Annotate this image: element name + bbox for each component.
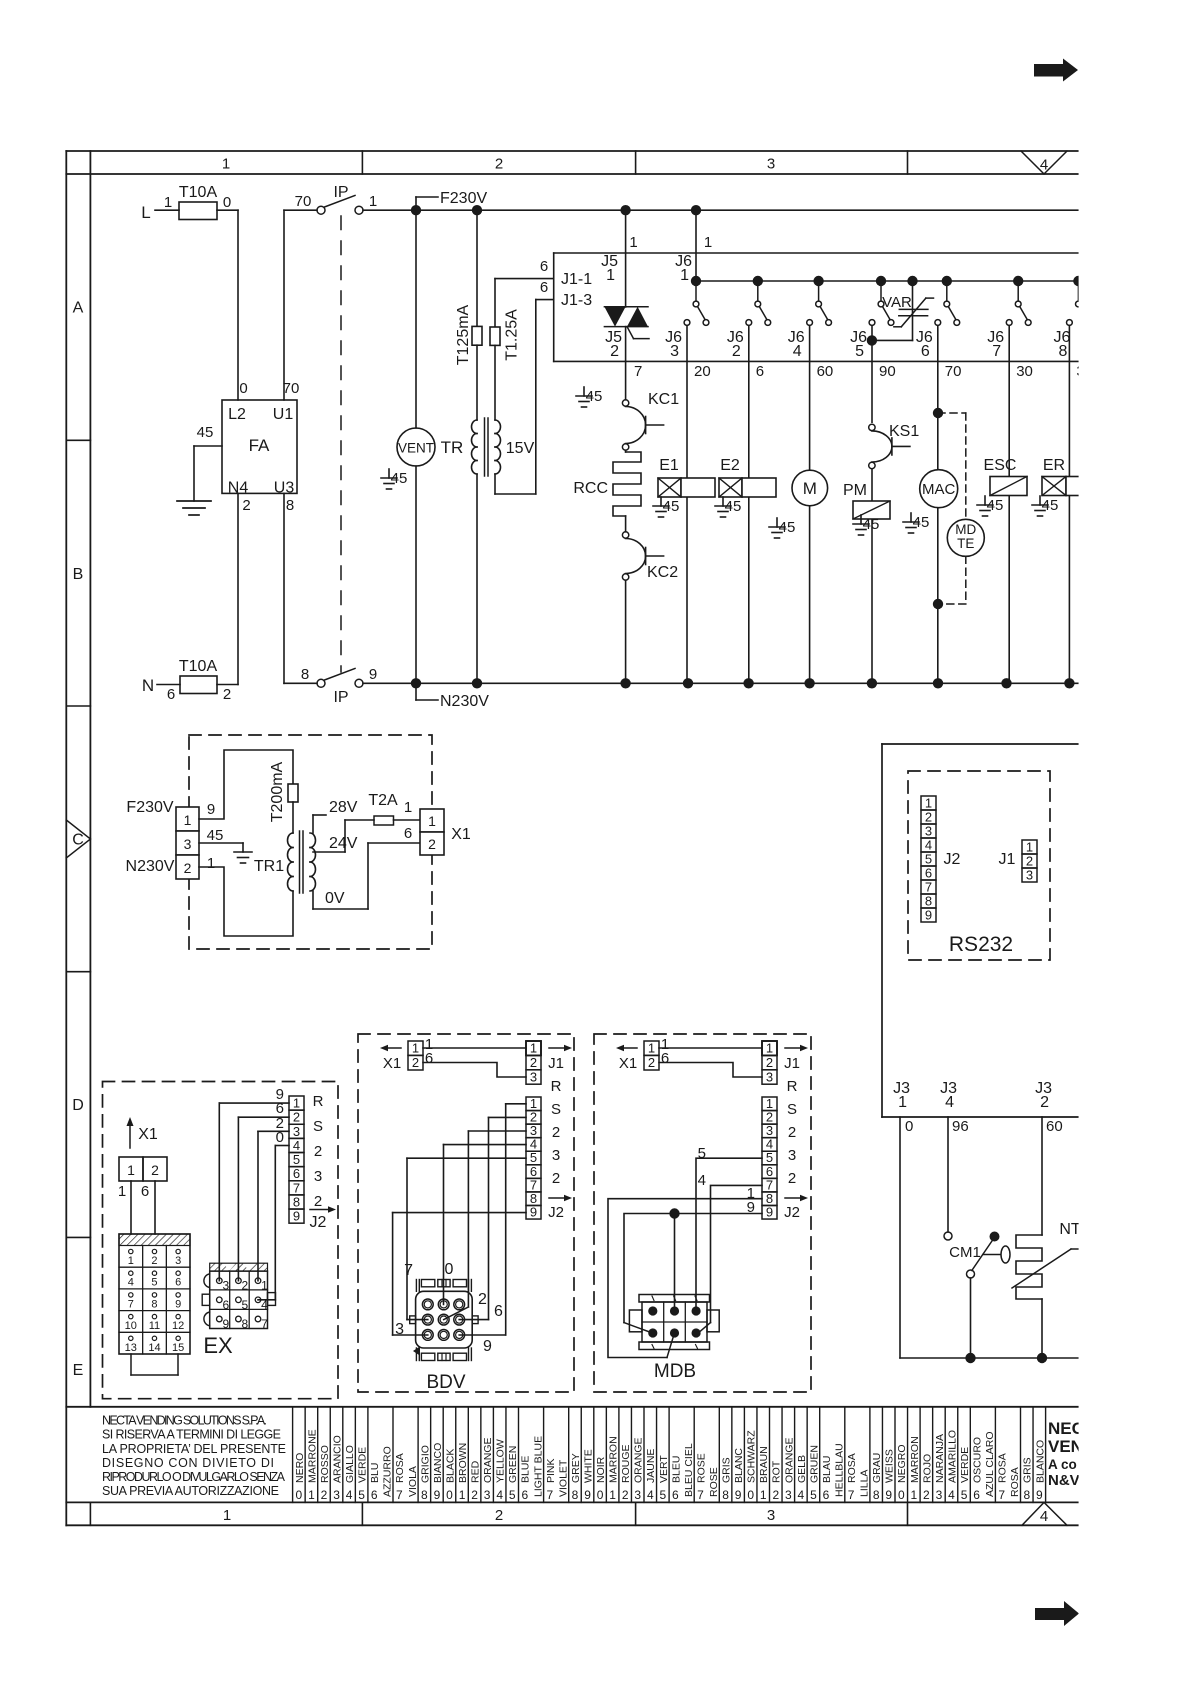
svg-text:NOIR: NOIR — [595, 1456, 607, 1483]
svg-text:3: 3 — [184, 836, 192, 852]
svg-text:45: 45 — [391, 470, 408, 487]
svg-text:BLACK: BLACK — [444, 1449, 456, 1483]
svg-text:OSCURO: OSCURO — [972, 1437, 984, 1483]
svg-text:U1: U1 — [273, 406, 294, 423]
svg-text:3: 3 — [552, 1147, 560, 1164]
svg-text:ROSSO: ROSSO — [319, 1445, 331, 1483]
svg-text:2: 2 — [788, 1170, 796, 1187]
svg-text:KS1: KS1 — [889, 423, 919, 440]
svg-text:5: 5 — [961, 1488, 968, 1502]
svg-text:F230V: F230V — [126, 799, 173, 816]
svg-text:4: 4 — [1040, 157, 1048, 174]
svg-text:1: 1 — [648, 1041, 655, 1056]
svg-text:45: 45 — [779, 519, 796, 536]
svg-text:S: S — [313, 1118, 323, 1135]
svg-text:EX: EX — [203, 1333, 233, 1358]
svg-text:4: 4 — [128, 1277, 134, 1289]
svg-text:9: 9 — [369, 666, 377, 683]
svg-text:A: A — [73, 300, 84, 317]
svg-text:NT: NT — [1059, 1221, 1081, 1238]
svg-text:1: 1 — [760, 1488, 767, 1502]
svg-text:45: 45 — [725, 498, 742, 515]
svg-text:VERDE: VERDE — [357, 1447, 369, 1483]
svg-text:1: 1 — [606, 267, 615, 284]
svg-text:GRUEN: GRUEN — [808, 1445, 820, 1483]
svg-text:90: 90 — [879, 363, 896, 380]
svg-text:9: 9 — [747, 1199, 755, 1216]
svg-text:1: 1 — [428, 813, 436, 829]
svg-text:1: 1 — [118, 1183, 126, 1200]
svg-text:ROSA: ROSA — [1009, 1467, 1021, 1497]
svg-text:5: 5 — [358, 1488, 365, 1502]
svg-text:1: 1 — [261, 1279, 268, 1293]
svg-text:15V: 15V — [506, 440, 535, 457]
svg-text:J2: J2 — [944, 851, 961, 868]
svg-text:LILLA: LILLA — [859, 1470, 871, 1497]
svg-text:70: 70 — [283, 380, 300, 397]
svg-text:6: 6 — [494, 1303, 503, 1320]
svg-text:0: 0 — [296, 1488, 303, 1502]
svg-text:4: 4 — [496, 1488, 503, 1502]
svg-text:1: 1 — [223, 1507, 231, 1524]
svg-text:T1.25A: T1.25A — [504, 309, 521, 361]
svg-text:2: 2 — [788, 1124, 796, 1141]
svg-text:9: 9 — [483, 1338, 492, 1355]
svg-text:GRIS: GRIS — [721, 1457, 733, 1483]
svg-text:ESC: ESC — [984, 457, 1017, 474]
svg-text:2: 2 — [732, 343, 741, 360]
svg-text:3: 3 — [766, 1069, 773, 1084]
svg-text:7: 7 — [293, 1180, 300, 1195]
svg-text:GRIGIO: GRIGIO — [419, 1445, 431, 1483]
svg-text:RED: RED — [470, 1460, 482, 1483]
svg-text:GRAU: GRAU — [871, 1453, 883, 1483]
svg-text:3: 3 — [767, 156, 775, 173]
svg-text:45: 45 — [207, 827, 224, 844]
svg-text:0: 0 — [898, 1488, 905, 1502]
svg-text:J2: J2 — [310, 1214, 327, 1231]
svg-text:8: 8 — [1023, 1488, 1030, 1502]
svg-text:2: 2 — [478, 1291, 487, 1308]
svg-text:2: 2 — [151, 1162, 159, 1178]
svg-text:J2: J2 — [548, 1204, 564, 1221]
svg-text:ROJO: ROJO — [921, 1454, 933, 1483]
svg-text:FA: FA — [249, 436, 270, 455]
svg-text:1: 1 — [530, 1041, 537, 1056]
svg-text:6: 6 — [756, 363, 764, 380]
svg-text:5: 5 — [151, 1277, 157, 1289]
svg-text:3: 3 — [222, 1279, 229, 1293]
svg-text:4: 4 — [698, 1172, 706, 1189]
svg-text:J1: J1 — [548, 1055, 564, 1072]
svg-text:E2: E2 — [720, 457, 740, 474]
svg-text:VIOLET: VIOLET — [557, 1459, 569, 1497]
svg-text:MD: MD — [955, 522, 976, 537]
svg-text:ROSA: ROSA — [846, 1453, 858, 1483]
svg-text:2: 2 — [552, 1170, 560, 1187]
svg-text:6: 6 — [175, 1277, 181, 1289]
svg-text:N: N — [142, 676, 154, 695]
svg-text:IP: IP — [333, 184, 348, 201]
svg-text:20: 20 — [694, 363, 711, 380]
svg-text:RIPRODURLO O DIVULGARLO SENZA: RIPRODURLO O DIVULGARLO SENZA — [102, 1470, 286, 1484]
svg-text:KC1: KC1 — [648, 391, 679, 408]
svg-text:ER: ER — [1043, 457, 1065, 474]
svg-text:7: 7 — [697, 1488, 704, 1502]
svg-text:VAR: VAR — [882, 294, 912, 311]
svg-text:NECTA VENDING SOLUTIONS S.P.A.: NECTA VENDING SOLUTIONS S.P.A. — [102, 1414, 267, 1428]
svg-text:3: 3 — [767, 1507, 775, 1524]
svg-text:BLANCO: BLANCO — [1034, 1440, 1046, 1483]
svg-text:L: L — [141, 203, 150, 222]
svg-text:LA PROPRIETA’ DEL PRESENTE: LA PROPRIETA’ DEL PRESENTE — [102, 1442, 286, 1456]
svg-text:6: 6 — [661, 1050, 669, 1067]
svg-text:X1: X1 — [383, 1055, 401, 1072]
svg-text:70: 70 — [945, 363, 962, 380]
svg-text:1: 1 — [925, 796, 932, 811]
svg-text:ARANCIO: ARANCIO — [331, 1435, 343, 1483]
svg-text:1: 1 — [127, 1162, 135, 1178]
svg-text:M: M — [803, 479, 817, 498]
svg-text:8: 8 — [151, 1298, 157, 1310]
svg-text:9: 9 — [222, 1317, 229, 1331]
svg-text:5: 5 — [925, 852, 932, 867]
svg-text:SI RISERVA A TERMINI DI LEGGE: SI RISERVA A TERMINI DI LEGGE — [102, 1428, 281, 1442]
svg-text:1: 1 — [898, 1094, 907, 1111]
svg-text:GIALLO: GIALLO — [344, 1445, 356, 1483]
svg-text:SCHWARZ: SCHWARZ — [746, 1430, 758, 1483]
svg-text:5: 5 — [698, 1145, 706, 1162]
svg-text:2: 2 — [1040, 1094, 1049, 1111]
svg-text:45: 45 — [863, 516, 880, 533]
svg-text:J1: J1 — [784, 1055, 800, 1072]
svg-text:0: 0 — [905, 1118, 913, 1135]
svg-text:S: S — [787, 1101, 797, 1118]
svg-text:2: 2 — [184, 860, 192, 876]
svg-text:4: 4 — [948, 1488, 955, 1502]
svg-text:1: 1 — [308, 1488, 315, 1502]
svg-text:YELLOW: YELLOW — [495, 1439, 507, 1483]
svg-text:BIANCO: BIANCO — [432, 1443, 444, 1483]
svg-text:3: 3 — [936, 1488, 943, 1502]
svg-text:RCC: RCC — [573, 480, 608, 497]
svg-text:MARRON: MARRON — [608, 1436, 620, 1483]
svg-text:2: 2 — [530, 1055, 537, 1070]
svg-text:3: 3 — [788, 1147, 796, 1164]
svg-text:0: 0 — [239, 380, 247, 397]
svg-text:9: 9 — [766, 1204, 773, 1219]
svg-text:30: 30 — [1016, 363, 1033, 380]
svg-text:6: 6 — [823, 1488, 830, 1502]
svg-text:4: 4 — [1040, 1508, 1048, 1525]
svg-text:0V: 0V — [325, 890, 345, 907]
svg-text:RS232: RS232 — [949, 933, 1013, 956]
svg-text:KC2: KC2 — [647, 564, 678, 581]
svg-text:1: 1 — [222, 156, 230, 173]
svg-text:MAC: MAC — [922, 481, 956, 498]
svg-text:9: 9 — [1036, 1488, 1043, 1502]
svg-text:1: 1 — [184, 812, 192, 828]
svg-text:2: 2 — [622, 1488, 629, 1502]
svg-text:X1: X1 — [451, 826, 471, 843]
svg-text:IP: IP — [333, 689, 348, 706]
svg-text:5: 5 — [660, 1488, 667, 1502]
svg-text:S: S — [551, 1101, 561, 1118]
svg-text:0: 0 — [276, 1129, 284, 1146]
svg-text:2: 2 — [648, 1055, 655, 1070]
svg-text:7: 7 — [547, 1488, 554, 1502]
svg-text:5: 5 — [855, 343, 864, 360]
svg-text:1: 1 — [404, 799, 412, 816]
svg-text:T125mA: T125mA — [455, 304, 472, 365]
svg-text:TR: TR — [441, 438, 464, 457]
svg-text:T10A: T10A — [179, 184, 218, 201]
svg-text:1: 1 — [164, 194, 172, 211]
svg-text:ORANGE: ORANGE — [633, 1437, 645, 1483]
svg-text:D: D — [72, 1097, 84, 1114]
svg-text:ORANGE: ORANGE — [783, 1437, 795, 1483]
svg-text:45: 45 — [987, 497, 1004, 514]
svg-text:9: 9 — [584, 1488, 591, 1502]
svg-text:3: 3 — [395, 1321, 404, 1338]
svg-text:60: 60 — [1046, 1118, 1063, 1135]
svg-text:J1-3: J1-3 — [561, 292, 592, 309]
svg-text:5: 5 — [293, 1152, 300, 1167]
svg-text:X1: X1 — [138, 1126, 158, 1143]
svg-text:3: 3 — [634, 1488, 641, 1502]
svg-text:8: 8 — [286, 497, 294, 514]
svg-text:6: 6 — [425, 1050, 433, 1067]
svg-text:2: 2 — [552, 1124, 560, 1141]
svg-text:7: 7 — [396, 1488, 403, 1502]
svg-text:3: 3 — [293, 1124, 300, 1139]
svg-text:3: 3 — [484, 1488, 491, 1502]
svg-text:2: 2 — [495, 156, 503, 173]
svg-text:4: 4 — [346, 1488, 353, 1502]
svg-text:N&V: N&V — [1048, 1472, 1080, 1489]
svg-text:TR1: TR1 — [254, 858, 284, 875]
svg-text:3: 3 — [314, 1168, 322, 1185]
svg-text:TE: TE — [957, 536, 974, 551]
svg-text:1: 1 — [629, 234, 637, 251]
svg-text:2: 2 — [242, 497, 250, 514]
svg-text:8: 8 — [873, 1488, 880, 1502]
svg-text:BLU: BLU — [369, 1463, 381, 1483]
svg-text:3: 3 — [785, 1488, 792, 1502]
svg-text:R: R — [551, 1078, 562, 1095]
svg-text:GREEN: GREEN — [507, 1446, 519, 1483]
svg-text:6: 6 — [672, 1488, 679, 1502]
svg-text:4: 4 — [793, 343, 802, 360]
svg-text:NARANJA: NARANJA — [934, 1434, 946, 1483]
svg-text:1: 1 — [911, 1488, 918, 1502]
svg-text:3: 3 — [333, 1488, 340, 1502]
svg-text:T10A: T10A — [179, 658, 218, 675]
svg-text:6: 6 — [973, 1488, 980, 1502]
svg-text:6: 6 — [371, 1488, 378, 1502]
svg-text:4: 4 — [925, 838, 932, 853]
svg-text:JAUNE: JAUNE — [645, 1449, 657, 1483]
svg-text:2: 2 — [314, 1193, 322, 1210]
svg-text:1: 1 — [680, 267, 689, 284]
svg-text:6: 6 — [141, 1183, 149, 1200]
svg-text:1: 1 — [766, 1041, 773, 1056]
svg-text:7: 7 — [848, 1488, 855, 1502]
svg-text:13: 13 — [125, 1342, 137, 1354]
svg-text:BDV: BDV — [426, 1372, 465, 1393]
svg-text:E1: E1 — [659, 457, 679, 474]
svg-text:ROSE: ROSE — [708, 1467, 720, 1497]
svg-text:BLAU: BLAU — [821, 1456, 833, 1483]
svg-text:GREY: GREY — [570, 1453, 582, 1483]
svg-text:A co: A co — [1048, 1457, 1077, 1472]
svg-text:1: 1 — [412, 1041, 419, 1056]
svg-text:NEC: NEC — [1048, 1419, 1084, 1438]
svg-text:8: 8 — [1058, 343, 1067, 360]
svg-text:45: 45 — [586, 388, 603, 405]
svg-text:1: 1 — [207, 855, 215, 872]
svg-text:4: 4 — [293, 1138, 300, 1153]
svg-text:VEN: VEN — [1048, 1437, 1083, 1456]
svg-text:24V: 24V — [329, 835, 358, 852]
svg-text:28V: 28V — [329, 799, 358, 816]
svg-text:HELLBLAU: HELLBLAU — [833, 1443, 845, 1497]
svg-text:PM: PM — [843, 482, 867, 499]
svg-text:7: 7 — [634, 363, 642, 380]
svg-text:45: 45 — [663, 498, 680, 515]
svg-text:ROSA: ROSA — [997, 1453, 1009, 1483]
svg-text:96: 96 — [952, 1118, 969, 1135]
svg-text:8: 8 — [722, 1488, 729, 1502]
svg-text:9: 9 — [925, 908, 932, 923]
svg-text:2: 2 — [471, 1488, 478, 1502]
svg-text:8: 8 — [242, 1317, 249, 1331]
svg-text:PINK: PINK — [545, 1458, 557, 1483]
svg-text:5: 5 — [509, 1488, 516, 1502]
svg-text:1: 1 — [609, 1488, 616, 1502]
svg-text:ROUGE: ROUGE — [620, 1444, 632, 1483]
svg-text:9: 9 — [207, 801, 215, 818]
svg-text:6: 6 — [921, 343, 930, 360]
svg-text:WEISS: WEISS — [884, 1449, 896, 1483]
svg-text:J1-1: J1-1 — [561, 271, 592, 288]
svg-text:BROWN: BROWN — [457, 1443, 469, 1483]
svg-text:2: 2 — [314, 1143, 322, 1160]
svg-text:NEGRO: NEGRO — [896, 1444, 908, 1483]
svg-text:9: 9 — [434, 1488, 441, 1502]
svg-text:2: 2 — [923, 1488, 930, 1502]
svg-text:45: 45 — [197, 424, 214, 441]
svg-text:AMARILLO: AMARILLO — [946, 1430, 958, 1483]
svg-text:14: 14 — [148, 1342, 160, 1354]
svg-text:7: 7 — [404, 1262, 413, 1279]
svg-text:8: 8 — [572, 1488, 579, 1502]
svg-text:0: 0 — [445, 1261, 454, 1278]
svg-text:60: 60 — [817, 363, 834, 380]
svg-text:T2A: T2A — [368, 792, 398, 809]
svg-text:E: E — [73, 1362, 84, 1379]
svg-text:9: 9 — [293, 1209, 300, 1224]
svg-text:SUA PREVIA AUTORIZZAZIONE: SUA PREVIA AUTORIZZAZIONE — [102, 1484, 279, 1498]
svg-text:J2: J2 — [784, 1204, 800, 1221]
svg-text:0: 0 — [747, 1488, 754, 1502]
svg-text:10: 10 — [125, 1320, 137, 1332]
svg-text:R: R — [313, 1093, 324, 1110]
svg-text:3: 3 — [925, 824, 932, 839]
svg-text:7: 7 — [128, 1298, 134, 1310]
svg-text:2: 2 — [1026, 854, 1033, 869]
svg-text:BLEU CIEL: BLEU CIEL — [683, 1443, 695, 1497]
svg-text:BLANC: BLANC — [733, 1448, 745, 1483]
svg-text:2: 2 — [223, 686, 231, 703]
svg-text:7: 7 — [998, 1488, 1005, 1502]
svg-text:8: 8 — [421, 1488, 428, 1502]
svg-text:9: 9 — [530, 1204, 537, 1219]
svg-text:7: 7 — [992, 343, 1001, 360]
svg-text:X1: X1 — [619, 1055, 637, 1072]
svg-text:15: 15 — [172, 1342, 184, 1354]
svg-text:J1: J1 — [999, 851, 1016, 868]
svg-text:12: 12 — [172, 1320, 184, 1332]
svg-text:70: 70 — [295, 193, 312, 210]
svg-text:45: 45 — [913, 514, 930, 531]
svg-text:6: 6 — [540, 258, 548, 275]
svg-text:F230V: F230V — [440, 190, 487, 207]
svg-text:2: 2 — [610, 343, 619, 360]
svg-text:6: 6 — [293, 1166, 300, 1181]
svg-text:BLEU: BLEU — [670, 1456, 682, 1483]
svg-text:VENT: VENT — [398, 441, 434, 456]
svg-text:2: 2 — [766, 1055, 773, 1070]
svg-text:GRIS: GRIS — [1022, 1457, 1034, 1483]
svg-text:ROSE: ROSE — [695, 1453, 707, 1483]
svg-text:1: 1 — [128, 1255, 134, 1267]
svg-text:NERO: NERO — [294, 1453, 306, 1483]
svg-text:6: 6 — [925, 866, 932, 881]
svg-text:3: 3 — [530, 1069, 537, 1084]
svg-text:ROT: ROT — [771, 1460, 783, 1483]
svg-text:7: 7 — [261, 1317, 268, 1331]
svg-text:WHITE: WHITE — [582, 1449, 594, 1483]
svg-text:VERT: VERT — [658, 1455, 670, 1483]
svg-text:7: 7 — [925, 880, 932, 895]
svg-text:5: 5 — [810, 1488, 817, 1502]
svg-text:AZUL CLARO: AZUL CLARO — [984, 1431, 996, 1497]
svg-text:MARRON: MARRON — [909, 1436, 921, 1483]
svg-text:8: 8 — [301, 666, 309, 683]
svg-text:2: 2 — [293, 1110, 300, 1125]
svg-text:R: R — [787, 1078, 798, 1095]
svg-text:2: 2 — [495, 1507, 503, 1524]
svg-text:0: 0 — [223, 194, 231, 211]
svg-text:6: 6 — [540, 279, 548, 296]
svg-text:2: 2 — [428, 836, 436, 852]
svg-text:8: 8 — [293, 1194, 300, 1209]
svg-text:1: 1 — [369, 193, 377, 210]
svg-text:LIGHT BLUE: LIGHT BLUE — [532, 1436, 544, 1497]
svg-text:3: 3 — [670, 343, 679, 360]
svg-text:N230V: N230V — [126, 858, 175, 875]
svg-text:0: 0 — [446, 1488, 453, 1502]
svg-text:6: 6 — [521, 1488, 528, 1502]
svg-text:1: 1 — [1026, 840, 1033, 855]
svg-text:2: 2 — [412, 1055, 419, 1070]
svg-text:45: 45 — [1042, 497, 1059, 514]
svg-text:BLUE: BLUE — [520, 1456, 532, 1483]
svg-text:5: 5 — [242, 1298, 249, 1312]
svg-text:3: 3 — [175, 1255, 181, 1267]
svg-text:0: 0 — [597, 1488, 604, 1502]
